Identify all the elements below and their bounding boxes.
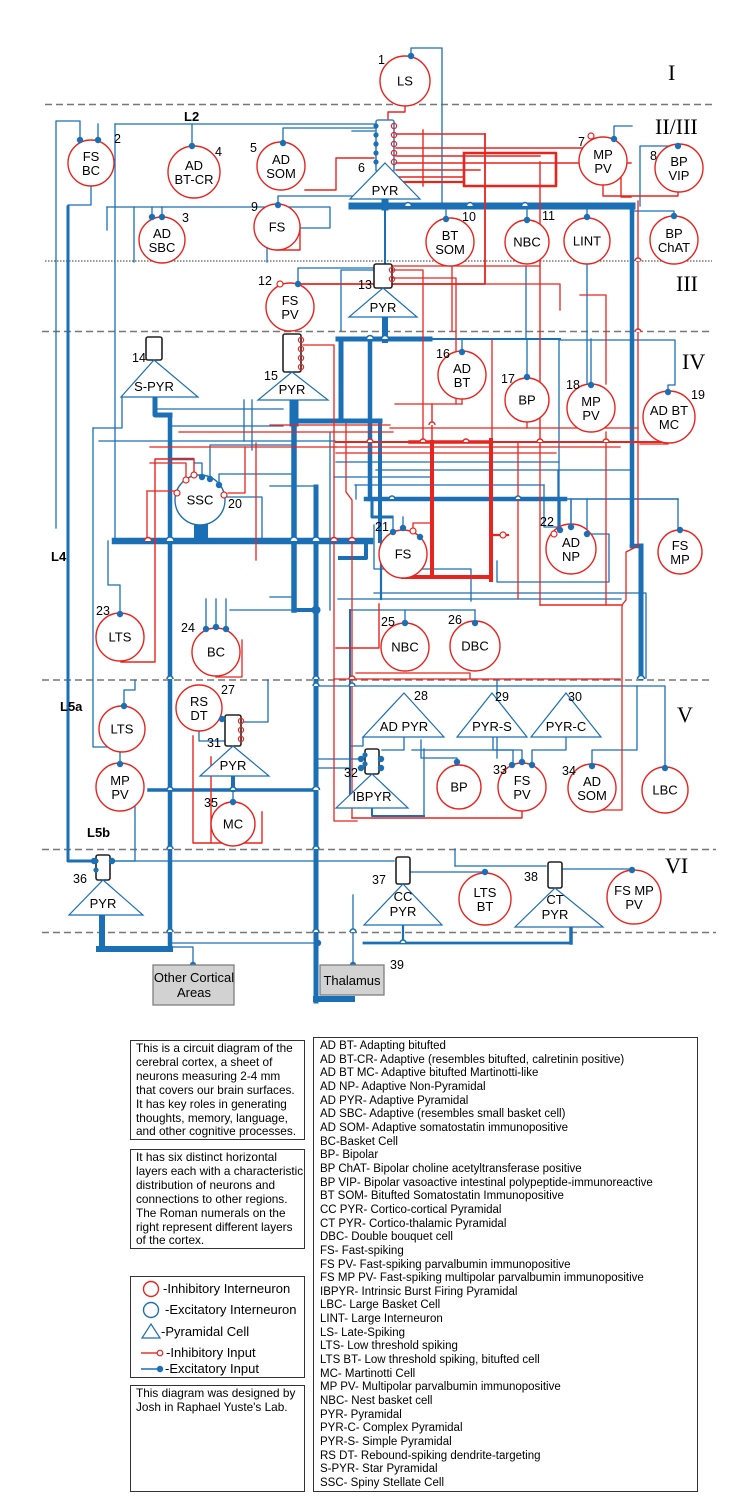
red x638-622 to AD SOM xyxy=(592,201,638,810)
red branch to AD NP input xyxy=(491,534,508,536)
wire xyxy=(270,596,292,598)
svg-text:PV: PV xyxy=(625,897,643,912)
LS inhibitory output xyxy=(388,106,405,120)
wire xyxy=(336,461,559,463)
excitatory input xyxy=(629,867,635,873)
svg-text:BT: BT xyxy=(477,899,494,914)
inhibitory input xyxy=(221,492,227,498)
wire xyxy=(544,485,557,527)
wire xyxy=(108,541,120,614)
thick trunk x316 to Thalamus xyxy=(314,487,319,1001)
soma6 red out y170 xyxy=(396,169,480,171)
excitatory input xyxy=(216,482,222,488)
red x256 xyxy=(255,443,257,560)
excitatory input xyxy=(568,524,574,530)
thick bus y541 (L4 output) xyxy=(115,538,370,545)
excitatory input xyxy=(378,765,384,771)
excitatory input xyxy=(275,202,281,208)
excitatory input xyxy=(472,620,478,626)
neuron 2 FS BC xyxy=(68,132,121,186)
wire xyxy=(155,408,283,410)
wire xyxy=(112,792,135,861)
excitatory input xyxy=(665,389,671,395)
soma of CC PYR 37 xyxy=(396,857,410,884)
wire xyxy=(586,265,588,385)
svg-text:26: 26 xyxy=(448,613,462,627)
svg-text:LINT: LINT xyxy=(573,234,601,249)
bus y943 layer VI xyxy=(364,942,571,945)
wire hop xyxy=(638,676,645,679)
wire xyxy=(496,680,498,758)
svg-text:12: 12 xyxy=(258,274,272,288)
glossary box xyxy=(313,1037,698,1492)
svg-text:PYR: PYR xyxy=(220,758,247,773)
wire xyxy=(633,211,674,216)
svg-text:PYR: PYR xyxy=(390,904,417,919)
wire xyxy=(195,463,202,477)
wire hop xyxy=(290,537,298,541)
svg-text:SSC: SSC xyxy=(187,493,214,508)
wire hop xyxy=(603,439,609,442)
red x492 upper xyxy=(491,340,493,442)
svg-text:SOM: SOM xyxy=(266,166,296,181)
red left of soma6 to AD SOM xyxy=(305,158,374,190)
bus jog y558 xyxy=(340,541,366,558)
neuron 16 AD BT xyxy=(436,347,486,399)
wire xyxy=(93,428,120,764)
thick trunk x170 xyxy=(168,415,173,947)
wire xyxy=(376,469,631,471)
neuron 33 FS PV xyxy=(493,763,546,811)
wire hop xyxy=(166,537,174,541)
excitatory input xyxy=(588,382,594,388)
MP PV red to BP VIP xyxy=(603,185,678,196)
neuron 23 LTS xyxy=(96,604,144,661)
excitatory input xyxy=(350,962,356,968)
thick vertical x632 xyxy=(630,206,635,546)
wire xyxy=(93,397,122,428)
svg-text:AD: AD xyxy=(272,152,290,167)
bus jog to FS21 dots xyxy=(372,499,392,517)
S-PYR output stem xyxy=(155,397,170,415)
thick red under FS21 xyxy=(403,575,491,579)
svg-text:ChAT: ChAT xyxy=(658,240,690,255)
soma of PYR 6 xyxy=(373,120,396,172)
thick red top bar xyxy=(410,440,491,444)
svg-text:L5b: L5b xyxy=(87,825,110,840)
svg-text:SOM: SOM xyxy=(435,242,465,257)
neuron 35 MC xyxy=(204,796,255,846)
neuron 34 AD SOM xyxy=(562,764,616,812)
neuron LTS xyxy=(99,706,145,752)
wire xyxy=(106,207,108,230)
wire hop xyxy=(313,676,319,679)
neuron 1 LS xyxy=(378,53,430,106)
excitatory input xyxy=(417,534,423,540)
excitatory input xyxy=(149,214,155,220)
svg-text:FS MP: FS MP xyxy=(614,883,654,898)
vertical x380 down xyxy=(378,421,382,541)
excitatory input xyxy=(77,137,83,143)
neuron LINT xyxy=(564,218,610,264)
red x456 to band IV xyxy=(455,331,457,404)
neuron 12 FS PV xyxy=(258,274,314,331)
wire hop xyxy=(367,336,374,340)
wire xyxy=(614,126,632,139)
svg-text:L2: L2 xyxy=(184,109,199,124)
wire xyxy=(316,767,350,769)
layer boundary I/II-III xyxy=(45,104,712,106)
inhibitory input xyxy=(174,490,180,496)
red hook BC xyxy=(216,640,242,677)
svg-text:AD: AD xyxy=(185,158,203,173)
wire hop xyxy=(389,496,395,499)
soma of IBPYR 32 xyxy=(362,749,379,774)
excitatory input xyxy=(390,529,396,535)
red x606 lower xyxy=(605,432,607,605)
svg-text:V: V xyxy=(677,702,693,727)
svg-text:34: 34 xyxy=(562,764,576,778)
wire xyxy=(558,340,560,527)
svg-text:BT-CR: BT-CR xyxy=(175,172,214,187)
excitatory input xyxy=(529,762,535,768)
wire xyxy=(215,599,217,627)
legend box xyxy=(130,1276,305,1378)
excitatory input xyxy=(584,214,590,220)
svg-text:32: 32 xyxy=(344,766,358,780)
svg-text:8: 8 xyxy=(650,149,657,163)
svg-text:PV: PV xyxy=(594,161,612,176)
wire xyxy=(560,340,675,390)
excitatory input xyxy=(443,216,449,222)
wire xyxy=(172,942,316,944)
soma of PYR 36 xyxy=(93,855,110,880)
red y673 under NBC DBC xyxy=(356,673,470,679)
svg-text:24: 24 xyxy=(181,621,195,635)
BP red stub xyxy=(526,423,528,428)
excitatory input xyxy=(230,799,236,805)
svg-text:FS: FS xyxy=(269,220,286,235)
svg-text:10: 10 xyxy=(462,210,476,224)
svg-text:14: 14 xyxy=(132,351,146,365)
svg-text:36: 36 xyxy=(73,872,87,886)
thick vertical x341 up xyxy=(339,339,344,421)
pyramidal cell 14 S-PYR xyxy=(121,351,198,397)
red trunk x155 to LTS xyxy=(121,459,194,662)
svg-text:31: 31 xyxy=(207,736,221,750)
svg-text:35: 35 xyxy=(204,796,218,810)
wire xyxy=(251,400,253,450)
wire hop xyxy=(367,439,373,442)
excitatory input xyxy=(519,759,525,765)
excitatory input xyxy=(223,626,229,632)
wire xyxy=(384,208,386,264)
neuron 11 NBC xyxy=(505,209,555,264)
wire xyxy=(570,499,572,527)
wire xyxy=(445,206,447,219)
red x334 full xyxy=(303,345,357,821)
wire hop xyxy=(515,496,521,499)
neuron 25 NBC xyxy=(381,615,429,671)
red y428 xyxy=(390,427,638,429)
wire xyxy=(170,458,193,461)
svg-text:PV: PV xyxy=(281,307,299,322)
wire xyxy=(133,207,135,262)
svg-text:SBC: SBC xyxy=(149,240,176,255)
svg-text:BP: BP xyxy=(665,226,682,241)
wire hop xyxy=(429,422,435,425)
neuron LBC xyxy=(642,767,688,813)
svg-text:RS: RS xyxy=(190,694,208,709)
svg-text:PYR: PYR xyxy=(90,896,117,911)
wire hop xyxy=(230,787,236,790)
excitatory input xyxy=(408,53,414,59)
wire xyxy=(421,740,457,762)
excitatory input xyxy=(677,527,683,533)
wire xyxy=(278,196,376,205)
wire hop xyxy=(400,940,406,943)
svg-text:AD PYR: AD PYR xyxy=(380,719,428,734)
svg-text:NBC: NBC xyxy=(513,235,540,250)
soma13 red right b xyxy=(392,278,456,331)
excitatory input xyxy=(675,143,681,149)
wire xyxy=(232,792,234,802)
wire xyxy=(225,599,227,629)
svg-text:11: 11 xyxy=(542,209,555,223)
excitatory input xyxy=(662,765,668,771)
svg-text:PV: PV xyxy=(582,408,600,423)
excitatory input xyxy=(358,756,364,762)
wire xyxy=(112,860,394,862)
excitatory input xyxy=(524,217,530,223)
wire xyxy=(355,484,544,486)
wire xyxy=(243,400,245,441)
red y679 on boundary xyxy=(334,678,620,680)
svg-text:L5a: L5a xyxy=(60,699,83,714)
soma13 red right a xyxy=(392,270,423,331)
svg-text:AD BT: AD BT xyxy=(650,403,688,418)
svg-text:AD: AD xyxy=(562,535,580,550)
svg-text:PYR: PYR xyxy=(279,382,306,397)
wire xyxy=(677,499,679,530)
red y605 xyxy=(540,604,622,606)
excitatory input xyxy=(509,762,515,768)
svg-text:20: 20 xyxy=(228,497,242,511)
pyramidal cell 38 CT PYR xyxy=(515,870,603,927)
svg-text:BC: BC xyxy=(82,163,100,178)
neuron 3 AD SBC xyxy=(139,211,189,263)
thick red left side FS21 xyxy=(430,442,434,574)
svg-text:MP: MP xyxy=(593,147,613,162)
svg-text:28: 28 xyxy=(414,689,428,703)
thick excitatory bus layer II/III xyxy=(352,203,632,210)
layer boundary below VI xyxy=(42,932,716,934)
soma6 red out y163 xyxy=(396,162,631,164)
excitatory input xyxy=(117,611,123,617)
wire xyxy=(355,485,357,499)
wire hop xyxy=(167,676,173,679)
wire hop xyxy=(313,846,319,849)
soma6 red out y148 to MP PV xyxy=(396,141,592,148)
soma of CT PYR 38 xyxy=(548,862,562,888)
svg-text:S-PYR: S-PYR xyxy=(134,379,174,394)
pyramidal cell 15 PYR xyxy=(258,369,328,400)
svg-text:29: 29 xyxy=(495,690,509,704)
wire xyxy=(412,750,522,762)
neuron 9 FS xyxy=(251,200,300,250)
wire xyxy=(374,525,471,601)
wire xyxy=(205,599,207,629)
wire xyxy=(170,425,283,427)
wire xyxy=(266,207,268,262)
red x379 branch xyxy=(336,604,379,648)
wire hop xyxy=(312,537,320,541)
red x452 BT SOM down xyxy=(451,266,453,331)
svg-text:5: 5 xyxy=(250,141,257,155)
svg-text:2: 2 xyxy=(114,132,121,146)
wire xyxy=(484,872,486,880)
excitatory input xyxy=(109,858,115,864)
excitatory input xyxy=(213,624,219,630)
neuron 24 BC xyxy=(181,621,240,676)
wire xyxy=(210,445,292,479)
wire xyxy=(338,598,621,600)
svg-text:37: 37 xyxy=(372,873,386,887)
red x540 lower xyxy=(539,445,541,605)
excitatory input xyxy=(611,136,617,142)
wire xyxy=(270,485,314,487)
svg-text:17: 17 xyxy=(501,372,515,386)
thick vertical x641 xyxy=(639,546,644,678)
wire xyxy=(590,339,592,385)
svg-text:VIP: VIP xyxy=(669,168,690,183)
wire hop xyxy=(463,439,469,442)
wire xyxy=(56,121,80,528)
soma of S-PYR 14 xyxy=(146,337,162,360)
inhibitory input xyxy=(191,472,197,478)
red y425 xyxy=(270,424,390,426)
svg-text:-Inhibitory Input: -Inhibitory Input xyxy=(166,1345,256,1360)
credit box xyxy=(130,1385,305,1492)
svg-text:NP: NP xyxy=(562,549,580,564)
svg-text:II/III: II/III xyxy=(655,114,698,139)
red to SSC input xyxy=(147,490,174,492)
neuron LTS BT xyxy=(459,873,511,925)
wire xyxy=(316,758,361,760)
excitatory input xyxy=(315,940,321,946)
red x621 xyxy=(621,163,631,197)
legend pyramidal cell symbol xyxy=(142,1324,160,1338)
pyramidal cell 32 IBPYR xyxy=(336,766,408,808)
svg-text:PYR: PYR xyxy=(370,300,397,315)
IBPYR stem xyxy=(372,808,424,816)
bus layer IV top thin part xyxy=(430,338,560,340)
svg-text:AD: AD xyxy=(153,226,171,241)
AD BT red stub xyxy=(461,399,463,404)
svg-text:6: 6 xyxy=(358,161,365,175)
wire xyxy=(374,593,646,678)
CT PYR stem xyxy=(569,927,573,943)
svg-text:LBC: LBC xyxy=(652,783,677,798)
excitatory input xyxy=(454,759,460,765)
red to loop II/III xyxy=(396,181,464,183)
svg-text:1: 1 xyxy=(378,53,385,67)
neuron 26 DBC xyxy=(448,613,500,671)
pyramidal cell 30 PYR-C xyxy=(531,690,601,737)
svg-text:BT: BT xyxy=(442,228,459,243)
svg-text:16: 16 xyxy=(436,347,450,361)
svg-text:I: I xyxy=(668,60,675,85)
neuron FS MP PV xyxy=(607,870,661,924)
wire xyxy=(404,610,406,623)
wire xyxy=(352,130,376,132)
Other Cortical Areas box xyxy=(153,965,234,1005)
svg-text:13: 13 xyxy=(358,278,372,292)
svg-text:-Excitatory Interneuron: -Excitatory Interneuron xyxy=(165,1302,297,1317)
PYR31 stem xyxy=(231,776,235,790)
bus y790 layer V xyxy=(149,788,313,792)
soma6 red out y156 xyxy=(396,155,540,157)
wire xyxy=(334,476,430,478)
svg-text:PYR-S: PYR-S xyxy=(472,719,512,734)
wire xyxy=(532,737,566,765)
wire xyxy=(392,517,394,532)
wire xyxy=(474,610,476,623)
inhibitory input xyxy=(410,528,416,534)
wire xyxy=(382,737,404,750)
excitatory input xyxy=(117,761,123,767)
wire xyxy=(172,947,193,965)
soma of PYR 15 xyxy=(283,334,304,372)
red x606 upper xyxy=(580,295,606,384)
wire hop xyxy=(313,787,320,791)
excitatory input xyxy=(121,703,127,709)
svg-text:LTS: LTS xyxy=(474,885,497,900)
wire xyxy=(352,895,354,965)
wire xyxy=(114,124,116,541)
excitatory input xyxy=(199,474,205,480)
svg-text:15: 15 xyxy=(264,369,278,383)
wire xyxy=(107,207,330,228)
wire hop xyxy=(522,203,529,206)
wire hop xyxy=(349,676,355,679)
wire hop xyxy=(145,538,152,541)
svg-text:BP: BP xyxy=(450,780,467,795)
soma of PYR 13 xyxy=(374,264,395,288)
wire xyxy=(349,610,351,803)
excitatory input xyxy=(459,349,465,355)
svg-text:7: 7 xyxy=(578,135,585,149)
layer boundary IV/V xyxy=(42,679,712,681)
wire xyxy=(230,609,316,611)
wire xyxy=(586,206,588,217)
wire xyxy=(461,339,463,352)
wire xyxy=(115,123,385,125)
wire xyxy=(493,737,513,765)
bus y499 thin part xyxy=(565,498,678,500)
excitatory input xyxy=(400,525,406,531)
bus layer IV top xyxy=(338,337,430,342)
svg-text:33: 33 xyxy=(493,763,507,777)
wire xyxy=(411,48,442,206)
wire xyxy=(570,499,572,527)
red x423 to band IV xyxy=(422,331,424,442)
svg-text:PYR-C: PYR-C xyxy=(546,719,586,734)
trunk x68 xyxy=(68,207,94,861)
wire xyxy=(298,268,374,284)
wire xyxy=(402,517,404,528)
vertical x381 xyxy=(380,541,382,599)
